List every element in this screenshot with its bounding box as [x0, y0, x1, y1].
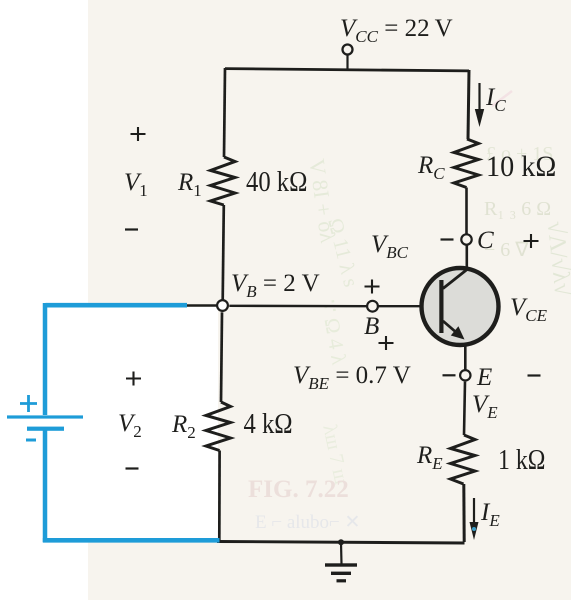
label VCC = 22 V	[340, 15, 453, 46]
label R2	[171, 411, 196, 442]
wire: transistor emitter to node E	[464, 345, 467, 370]
polarity - left of C	[441, 238, 454, 240]
wire: blue bottom (battery - to bottom rail)	[43, 538, 220, 543]
polarity + below B (VBE)	[379, 336, 394, 350]
svg-text:4 kΩ: 4 kΩ	[244, 407, 293, 439]
node VCC terminal	[343, 45, 353, 71]
wire: R2 to bottom rail	[218, 451, 221, 542]
node E	[460, 364, 492, 391]
resistor RE	[451, 435, 476, 484]
wire: RE to bottom rail	[462, 484, 465, 542]
wire: R1 to node B-divider	[223, 205, 224, 300]
polarity + above B (VBC)	[365, 280, 380, 294]
node divider junction (VB)	[217, 300, 228, 311]
polarity - right of E (VCE)	[528, 374, 541, 376]
wire: right branch upper (VCC to RC)	[468, 70, 469, 139]
svg-text:B: B	[364, 313, 379, 340]
svg-text:E ⌐ alubo⌐ ✕: E ⌐ alubo⌐ ✕	[255, 512, 360, 533]
svg-text:E: E	[476, 364, 492, 391]
label IE	[480, 499, 500, 530]
label VE	[472, 391, 498, 422]
svg-text:40 kΩ: 40 kΩ	[246, 165, 307, 197]
resistor R2	[206, 402, 231, 451]
wire: base wire from divider node to transistor	[186, 304, 440, 307]
label VB = 2 V	[231, 270, 320, 301]
svg-text:10 kΩ: 10 kΩ	[486, 150, 556, 183]
value 1 kOhm	[498, 443, 545, 476]
resistor R1	[211, 157, 236, 205]
polarity - left of E	[443, 374, 456, 376]
wire: node to R2	[221, 312, 222, 402]
wire: top rail VCC	[225, 69, 469, 71]
current arrow IC	[475, 83, 484, 127]
wire: blue top (battery + to divider node)	[46, 303, 188, 308]
node C	[461, 227, 494, 254]
wire: node E to RE	[464, 382, 465, 435]
wire: blue left vertical lower	[43, 430, 48, 542]
wire: left branch upper (VCC to R1)	[224, 68, 225, 157]
svg-text:C: C	[477, 227, 494, 254]
label IC	[485, 84, 506, 115]
node B	[364, 301, 379, 340]
label R1	[177, 169, 202, 200]
value 4 kOhm	[244, 407, 293, 439]
svg-text:FIG. 7.22: FIG. 7.22	[248, 476, 349, 503]
ground	[325, 539, 357, 582]
value 40 kOhm	[246, 165, 307, 197]
transistor Q1	[422, 268, 499, 345]
wire: bottom rail (black)	[217, 542, 465, 544]
wire: RC to node C	[465, 188, 468, 235]
label VBE = 0.7 V	[293, 362, 411, 393]
label V1 with polarity	[124, 127, 148, 230]
polarity + right of C (VCE)	[524, 234, 539, 248]
current arrow IE	[470, 498, 479, 540]
wire: blue left vertical upper	[43, 303, 48, 415]
wire: node C to transistor collector	[465, 245, 468, 270]
svg-text:VB = 2 V: VB = 2 V	[231, 270, 320, 301]
battery V2 source	[7, 395, 83, 442]
label VBC	[371, 231, 409, 262]
svg-text:R₁ ₃ 6 Ω: R₁ ₃ 6 Ω	[484, 198, 551, 220]
label V2 with polarity	[118, 372, 142, 469]
value 10 kOhm	[486, 150, 556, 183]
svg-text:1 kΩ: 1 kΩ	[498, 443, 545, 476]
resistor RC	[454, 139, 479, 188]
label VCE	[510, 294, 548, 325]
label RC	[417, 152, 445, 183]
faint bleed-through artifacts	[248, 91, 571, 533]
label RE	[416, 442, 443, 473]
